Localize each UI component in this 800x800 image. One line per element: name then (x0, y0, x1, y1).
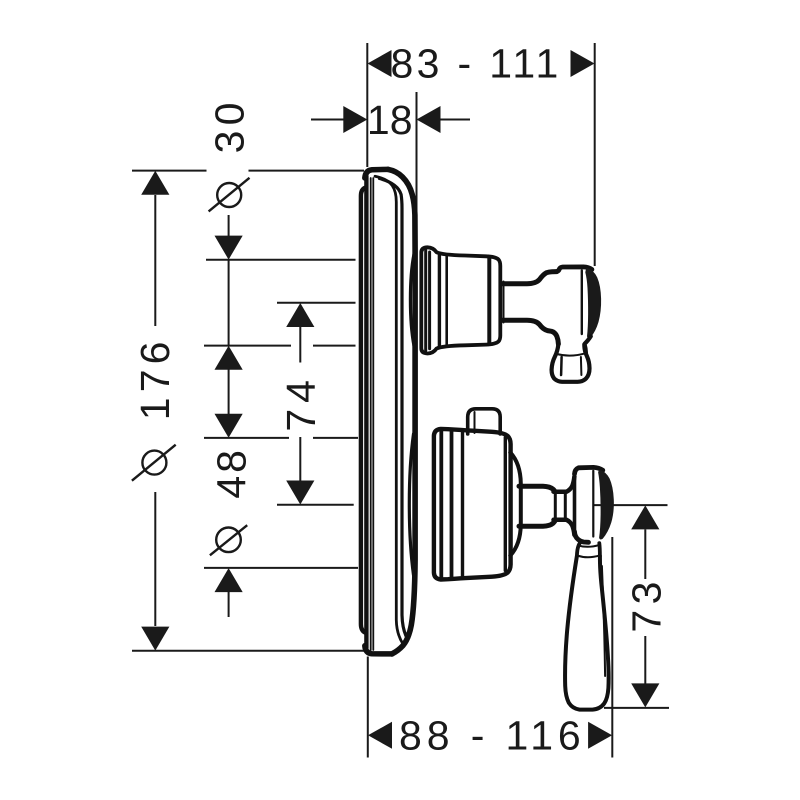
rim left edge (364, 176, 368, 648)
svg-text:18: 18 (367, 97, 413, 143)
extension line knob top (dia30) (206, 259, 356, 261)
front face bevel line (504, 438, 507, 571)
arrowhead pointing left (417, 106, 441, 133)
lip ridge line 1 (424, 250, 427, 351)
extension line knob bottom (dia48) (204, 567, 358, 569)
front cap flare (510, 453, 521, 556)
lip ridge line 1 (439, 430, 443, 579)
plate top edge (365, 169, 388, 178)
waist top edge into head (554, 477, 575, 492)
lever head face line (581, 271, 583, 335)
grip neck left edge (577, 541, 581, 556)
waist left edge (554, 493, 557, 520)
dimension line upper segment (644, 529, 646, 579)
connecting line through dia30 span (228, 260, 230, 346)
grip collar arc lower (577, 555, 600, 557)
leader tail below dia48 arrow (228, 592, 230, 617)
extension line left (wall plane) (366, 43, 368, 167)
lever head top edge (575, 467, 603, 474)
lip ridge line 2 (428, 252, 431, 349)
stem root line (503, 282, 505, 323)
extension line right (handle front) (594, 43, 596, 266)
dimension dia 176 (escutcheon diameter, left vertical) (132, 171, 365, 651)
lever head face line (592, 471, 594, 537)
lever head shaded crescent (585, 268, 601, 338)
arrowhead right (588, 722, 612, 749)
cylinder ridge line (445, 256, 448, 346)
extension line left (wall plane) (367, 657, 369, 758)
arrowhead down (141, 627, 169, 651)
rim inner contour line a (370, 178, 372, 650)
svg-text:88 - 116: 88 - 116 (399, 712, 586, 758)
dome inner contour line b (380, 179, 408, 639)
leader tail left (311, 119, 344, 121)
extension line bottom (132, 650, 365, 652)
extension line bottom handle axis (277, 504, 354, 506)
dimension line upper segment (299, 327, 301, 363)
arrowhead right (571, 50, 595, 77)
svg-text:30: 30 (207, 97, 253, 153)
button inner line (474, 412, 476, 433)
top handle stem and hub (502, 272, 558, 344)
svg-text:48: 48 (209, 447, 255, 498)
top knob contact arc (410, 254, 414, 346)
bottom handle lever (565, 467, 614, 709)
waist bottom edge into head (554, 520, 575, 535)
grip neck right edge (597, 543, 601, 556)
rim inner contour line b (372, 178, 374, 650)
diameter symbol for 48 (210, 525, 247, 555)
grip inner highlight line (602, 566, 605, 676)
dome front outline (388, 169, 415, 654)
arrowhead up to dia48 bottom (215, 568, 243, 592)
plate bottom edge (365, 646, 392, 654)
dimension line upper segment (154, 195, 156, 326)
stem top edge into hub (502, 272, 557, 284)
dome inner contour line a (375, 176, 403, 644)
extension line knob top (dia48) left of 74 line (204, 437, 289, 439)
skirt ridge line (438, 254, 441, 348)
knob outline with flared lip (421, 247, 500, 353)
lever head bottom into grip neck (585, 336, 591, 352)
svg-text:176: 176 (132, 336, 178, 420)
stem bottom edge (519, 520, 555, 526)
dimension 73 (lever length, right vertical) (593, 505, 670, 708)
dimension dia 30 and dia 48 (handle diameters, shared column) (204, 97, 358, 617)
waist right edge (564, 493, 567, 520)
grip outline (565, 556, 609, 710)
grip inner tick left (560, 357, 563, 375)
dimension line lower segment (644, 636, 646, 684)
back flange edge (361, 188, 365, 633)
arrowhead down (631, 683, 659, 707)
dimension 18 (escutcheon depth) (311, 92, 470, 251)
lever head shaded crescent (598, 470, 614, 539)
dimension 88-116 (bottom horizontal) (368, 537, 613, 758)
dimension 83-111 (top horizontal) (367, 41, 594, 267)
bottom handle (thermostat) knob (434, 429, 511, 580)
bottom knob contact arc (409, 434, 413, 575)
bottom handle safety stop button (468, 409, 501, 434)
leader tail right (441, 119, 471, 121)
front face bevel line (487, 258, 491, 344)
arrowhead left (368, 722, 392, 749)
top handle lever (552, 267, 602, 382)
arrowhead down (286, 481, 314, 505)
leader tail above dia30 arrow (228, 215, 230, 237)
stem bottom edge into hub (502, 320, 558, 344)
bottom handle stem and waist (510, 453, 574, 556)
diameter symbol for 30 (209, 178, 250, 212)
extension line knob bottom (dia30) left of 74 line (204, 345, 291, 347)
svg-text:73: 73 (624, 576, 670, 632)
arrowhead up to dia30 bottom (215, 346, 243, 370)
lever head top edge (557, 267, 592, 272)
extension line lever pivot (593, 504, 668, 506)
grip collar arc (556, 353, 585, 355)
extension line right (416, 92, 418, 251)
arrowhead up (631, 505, 659, 529)
connecting line between dia30 and dia48 arrows (228, 370, 230, 415)
lip ridge line 2 (450, 431, 454, 578)
svg-text:83 - 111: 83 - 111 (391, 41, 562, 87)
grip collar arc upper (578, 545, 600, 547)
arrowhead up (286, 303, 314, 327)
stem top edge (519, 486, 555, 492)
arrowhead pointing right (343, 106, 367, 133)
arrowhead up (141, 171, 169, 195)
arrowhead down to dia48 top (215, 414, 243, 438)
lever head left edge (573, 473, 577, 532)
extension line lever tip (604, 707, 669, 709)
top handle (volume control) knob (421, 247, 500, 353)
extension line top handle axis (277, 302, 356, 304)
grip bulb outline (552, 344, 590, 382)
diameter symbol for 176 (132, 445, 176, 481)
lever head bottom edge (575, 532, 589, 543)
button outline (468, 409, 501, 434)
escutcheon wall plate (side view) (361, 169, 415, 654)
extension line top right segment (249, 170, 365, 172)
arrowhead left (368, 50, 392, 77)
grip inner tick right (580, 357, 583, 375)
extension line right (lever front) (611, 537, 613, 758)
arrowhead down to dia30 top (215, 236, 243, 260)
svg-text:74: 74 (278, 374, 324, 431)
extension line knob top (dia48) right of 74 line (313, 437, 358, 439)
dimension line lower segment (154, 492, 156, 626)
dimension 74 (handle centre distance) (277, 303, 356, 505)
knob outline (434, 429, 511, 580)
skirt ridge line (461, 432, 464, 577)
dimension line lower segment (299, 437, 301, 481)
extension line top (with gap for dia symbol column) (132, 170, 207, 172)
extension line knob bottom (dia30) right of 74 line (313, 345, 356, 347)
